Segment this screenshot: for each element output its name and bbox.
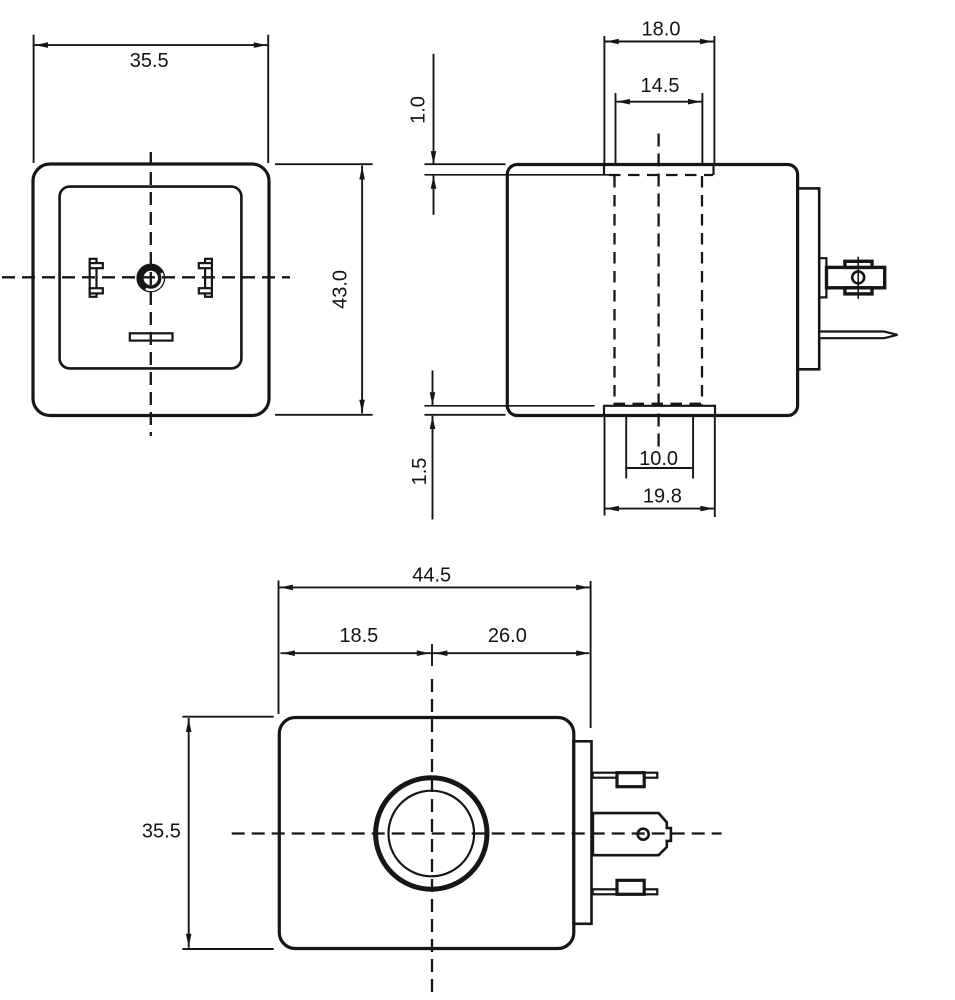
dimension 44.5 (view3 overall width) [279,564,591,728]
view2 terminal bottom tab [845,288,872,294]
view3 connector base plate [574,741,592,924]
view1 ground slot [130,333,173,340]
view3 horizontal centerline [232,832,722,834]
view1 center hole ring [140,267,162,289]
dimension 1.5 (view2 bottom step depth) [409,371,506,520]
view1 left contact pin [90,259,103,297]
dimension 43.0 (view1 height) [275,164,373,415]
view2 vertical centerline [657,134,659,449]
dimension 35.5 (view3 height) [142,717,274,949]
view3 vertical centerline [431,644,433,666]
svg-text:18.0: 18.0 [642,18,681,40]
dimension 18.5 (view3 left of center) [281,625,432,656]
svg-text:10.0: 10.0 [639,448,678,470]
dimension 1.0 (view2 top step depth) [408,54,506,215]
view2 connector base plate [798,188,820,369]
view2 spade pin [819,332,897,339]
svg-text:18.5: 18.5 [339,625,378,647]
view2 bottom boss outline [604,406,715,416]
dimension 14.5 (view2 groove inner width) [616,75,703,164]
view2 hidden groove top edge [609,174,713,176]
dimension 19.8 (view2 boss outer width) [605,417,715,517]
view3 upper pin [593,773,658,787]
dimension 10.0 (view2 boss inner width) [626,417,693,479]
view3 coil body outline [279,718,574,949]
view2 coil body outline [507,165,797,416]
view1 connector face inner outline [60,187,242,369]
view3 lower pin [593,880,658,894]
view1 coil body outer outline [33,164,269,416]
view2 hidden groove bottom edge [614,403,702,405]
view2 top step visible edge line [425,174,610,176]
view3 magnetic core bore inner circle [389,791,475,877]
view2 top groove step edges [603,165,605,176]
svg-text:35.5: 35.5 [130,50,169,72]
view2 terminal centerline [857,257,859,299]
view2 terminal top tab [845,261,872,267]
view1 vertical centerline [150,152,152,436]
svg-text:14.5: 14.5 [641,75,680,97]
dimension 35.5 (view1 width) [34,35,269,163]
svg-text:35.5: 35.5 [142,821,181,843]
svg-text:1.0: 1.0 [408,96,430,124]
svg-text:19.8: 19.8 [643,486,682,508]
svg-text:44.5: 44.5 [412,564,451,586]
view2 bottom step visible edge line [425,405,595,407]
svg-text:26.0: 26.0 [488,625,527,647]
view3 plug pilot hole [638,829,649,840]
view2 terminal screw hole [852,271,864,283]
view2 terminal body [827,267,885,287]
view3 magnetic core bore outer circle [376,778,487,889]
dimension 18.0 (view2 groove outer width) [604,18,714,163]
view2 hidden groove left wall [613,176,615,405]
svg-text:1.5: 1.5 [409,458,431,486]
view3 center plug [593,813,671,855]
view2 hidden groove right wall [701,176,703,405]
view1 horizontal centerline [2,276,290,278]
view2 terminal step notches [819,258,826,297]
view1 right contact pin [199,259,212,297]
dimension 26.0 (view3 right of center) [433,625,589,656]
svg-text:43.0: 43.0 [329,270,351,309]
